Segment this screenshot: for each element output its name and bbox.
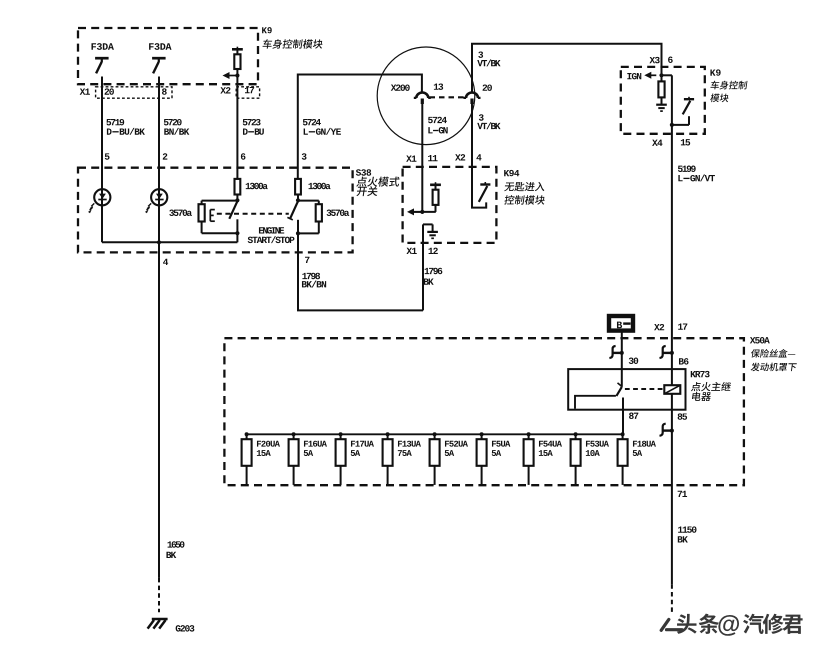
pin label X1 of K94 (406, 155, 412, 161)
relay KR73 contact: pin30 lead and armature (621, 369, 623, 387)
resistor 1300a (right) in S38 (295, 179, 301, 195)
label K9 name (Chinese) (262, 39, 272, 48)
fuse F18UA 5A (621, 432, 625, 436)
switch1 lower contact lead (236, 219, 238, 242)
wire to resistor 3570a right (298, 200, 319, 202)
wire 1650 BK dashed section (158, 578, 160, 612)
switch2 lower contact lead to pin7 (297, 220, 299, 253)
label G203 (176, 625, 181, 631)
terminal X200-20 (socket arc and pin stub) (464, 97, 481, 99)
pin 17 (245, 87, 250, 93)
pin label X4 of K9 (652, 140, 658, 146)
pin 6 of S38 (241, 153, 246, 159)
label ENGINE START/STOP (259, 227, 264, 233)
label K9 (top-right) (710, 69, 715, 75)
label S38 name line2 (Chinese) (356, 187, 367, 196)
pin 87 label (629, 413, 634, 419)
pin label X1 (bottom) of K94 (406, 248, 412, 254)
fuse F3DA (left) symbol (95, 57, 109, 60)
connector clip below KR73 pin 85 (660, 424, 666, 436)
junction dot K94 input node (420, 210, 424, 214)
LED indicator 1 in S38 (94, 189, 110, 205)
label 5724 L-GN (428, 117, 433, 123)
fuse F54UA 15A (527, 432, 531, 436)
pin B6 label (679, 358, 684, 364)
label K9 name line2 (Chinese) (710, 94, 720, 103)
label 5720 BN/BK (164, 119, 169, 125)
pin 85 label (678, 413, 683, 419)
dashed link contact-coil in KR73 (625, 388, 663, 390)
label K94 name line1 (Chinese) (504, 182, 515, 191)
pin 17 of X50A (678, 323, 683, 329)
fuse F20UA 15A (245, 432, 249, 436)
fuse F5UA 5A (480, 432, 484, 436)
relay KR73 coil (664, 385, 680, 394)
resistor 1300a (left) in S38 (235, 179, 241, 195)
pin 13 of X200 (434, 84, 439, 90)
wire 5724 L-GN (X200 pin13 to K94 X1-11) (421, 103, 423, 212)
label 1650 BK (168, 541, 173, 547)
label F3DA (left) (91, 43, 96, 50)
switch S38 contact 1 arm (229, 201, 237, 219)
junction dot switch2 top node (296, 198, 300, 202)
label X50A name line1 (Chinese) (750, 349, 760, 358)
module K9 body control module (top-right) dashed box (621, 67, 705, 134)
pin 5 of S38 (105, 153, 110, 159)
label K94 name line2 (Chinese) (504, 195, 515, 204)
pin label X3 of K9 (649, 57, 655, 63)
fuse F3DA (right) symbol (152, 57, 166, 60)
label F3DA (right) (149, 43, 154, 50)
wire 1798 BK/BN (S38 pin7 down then right) (298, 252, 423, 310)
label 5724 L-GN/YE (303, 119, 308, 125)
label KR73 (691, 371, 696, 377)
switch in K94 at X2-4 (480, 183, 490, 185)
connector X200 circle (377, 47, 475, 145)
module K94 keyless entry control module dashed box (403, 167, 497, 243)
label 1300a (right) (309, 183, 314, 189)
fuse F52UA 5A (433, 432, 437, 436)
label X200 (391, 85, 397, 91)
resistor in K9 feeding X2-17 with supply T (236, 47, 238, 50)
junction dot switch1 lower node (235, 231, 239, 235)
label S38 (356, 169, 361, 175)
ground symbol inside K9 (656, 104, 667, 106)
label KR73 name line2 (Chinese) (692, 392, 702, 401)
wire to resistor 3570a left (202, 200, 238, 202)
switch module S38 dashed box (78, 168, 353, 253)
pin label X2 (220, 87, 226, 93)
dashed mechanical link between switch halves (217, 213, 289, 215)
label X50A (750, 337, 756, 343)
wire 1650 BK (S38 pin4 down to ground G203) (158, 242, 160, 578)
label S38 name line1 (Chinese) (356, 177, 367, 187)
pin label X2 of X50A (654, 324, 660, 330)
pin 15 of K9 (681, 139, 686, 145)
junction dot K9 output node (670, 123, 674, 127)
label K9 (262, 27, 267, 33)
wire KR73 pin87 lead down to fuse bus (622, 398, 624, 435)
wire switch1 top node stub (236, 195, 238, 201)
connector clip at KR73 pin 30 (609, 346, 615, 358)
relay KR73 fixed contact 87 plate (575, 396, 616, 409)
resistor 3570a (right) in S38 (318, 201, 320, 205)
switch S38 contact 2 arm (290, 201, 298, 219)
fuse F16UA 5A (292, 432, 296, 436)
wire 3570a-right bottom to switch2 lower node (298, 232, 319, 234)
label 3570a (left) (169, 210, 174, 216)
label IGN (627, 73, 631, 79)
pin 7 of S38 (305, 257, 309, 263)
battery feed B+ symbol (609, 316, 633, 331)
wire 3 VT/BK (X200 pin20 up, right, down to K9 X3-6) (472, 44, 662, 92)
module K9 body control module (top-left) dashed box (78, 28, 258, 84)
wire 5719 (K9 X1-20 to S38 pin5, through LED1) (101, 77, 103, 243)
pin 20 of X200 (483, 84, 488, 90)
junction dot LED bus pin4 tap (157, 240, 161, 244)
wire B+ to KR73 pin30 (621, 332, 623, 369)
pin 3 of S38 (302, 153, 307, 159)
pin 20 (105, 88, 110, 94)
junction dot K9 X2-17 node (235, 73, 239, 77)
label X50A name line2 (Chinese) (750, 363, 760, 372)
wire 1150 BK (KR73 pin 85 / X50A pin71 down) (671, 394, 673, 585)
pin 11 of K94 (428, 155, 433, 161)
ground G203 chassis ground symbol (152, 618, 168, 621)
label K9 name line1 (Chinese) (710, 81, 720, 90)
input arrow IGN in K9 (644, 72, 651, 79)
resistor 3570a (left) in S38 (201, 201, 203, 205)
pin 12 of K94 (429, 248, 434, 254)
label 1150 BK (678, 526, 683, 532)
label 5719 D-BU/BK (106, 119, 111, 125)
pin 2 of S38 (163, 153, 168, 159)
pull-down resistor in K9 (658, 81, 664, 97)
label 3 VT/BK (below X200) (479, 114, 484, 120)
pull-up resistor with supply T in K94 (435, 182, 437, 185)
wire K9 output branch down (671, 75, 673, 125)
fuse block X50A dashed box (224, 338, 744, 485)
fuse F17UA 5A (339, 432, 343, 436)
wire K9 internal node to output branch (662, 74, 672, 76)
label KR73 name line1 (Chinese) (691, 382, 702, 391)
label 3 VT/BK (top) (478, 51, 483, 57)
wire LED bus in S38 (102, 241, 237, 243)
internal ground in K94 at X1-12 (423, 223, 433, 225)
label K94 (504, 170, 509, 176)
junction dot switch2 lower node (296, 231, 300, 235)
LED indicator 2 in S38 (151, 189, 167, 205)
junction dot K9 X3-6 node (659, 73, 663, 77)
watermark text (677, 614, 803, 636)
wire 1796 BK (K94 X1-12 down to junction with 1798) (422, 224, 424, 310)
watermark toutiao logo (661, 619, 682, 630)
pin 30 label (629, 358, 634, 364)
wire 5723 D-BU (K9 X2-17 to S38 pin6) (236, 76, 238, 179)
output driver arrow in K9 at X2-17 (223, 72, 230, 79)
wire 3 VT/BK (X200 pin20 to K94 X2-4) (472, 103, 486, 207)
relay KR73 box (568, 369, 685, 410)
input arrow in K94 at X1-11 (407, 208, 414, 215)
fuse bus from KR73 pin 87 (247, 433, 623, 435)
pin label X1 (80, 88, 86, 94)
wire switch2 top node stub (297, 195, 299, 201)
pin label X2 of K94 (455, 154, 461, 160)
terminal X200-13 (socket arc and pin stub) (414, 97, 431, 99)
label 3570a (right) (327, 210, 332, 216)
label 1796 BK (425, 268, 430, 274)
pushbutton actuator symbol (E-shape) (209, 210, 211, 222)
connector clip at KR73 pin B6 (660, 346, 666, 358)
label 5723 D-BU (243, 119, 248, 125)
pin 8 (162, 88, 167, 94)
connector X2 of K9 dashed box (pin 17) (236, 87, 259, 98)
pin 4 of S38 (163, 259, 168, 265)
pin 6 of K9 (668, 57, 673, 63)
junction dot switch1 top node (235, 198, 239, 202)
wire 5199 L-GN/VT (K9 X4-15 down through X50A to KR73 coil) (671, 125, 673, 385)
wire 1150 BK dashed section (671, 584, 673, 612)
pin 71 of X50A (678, 491, 682, 497)
label 5199 L-GN/VT (678, 166, 683, 172)
connector X1 of K9 dashed box (pins 20,8) (96, 87, 172, 98)
wire 5724 L-GN/YE (S38 pin3 up and right to X200 pin13) (298, 75, 422, 179)
fuse F53UA 10A (574, 432, 578, 436)
fuse F13UA 75A (386, 432, 390, 436)
dashed connector mating line X200 (430, 96, 465, 98)
label 1798 BK/BN (302, 273, 307, 279)
pin 4 of K94 (476, 154, 481, 160)
switch in K9 (ignition relay driver) (684, 98, 694, 100)
label 1300a (left) (246, 183, 251, 189)
wire 3570a-left bottom to switch1 lower contact (202, 232, 238, 234)
wire 5720 (K9 X1-8 to S38 pin2, through LED2) (158, 77, 160, 243)
